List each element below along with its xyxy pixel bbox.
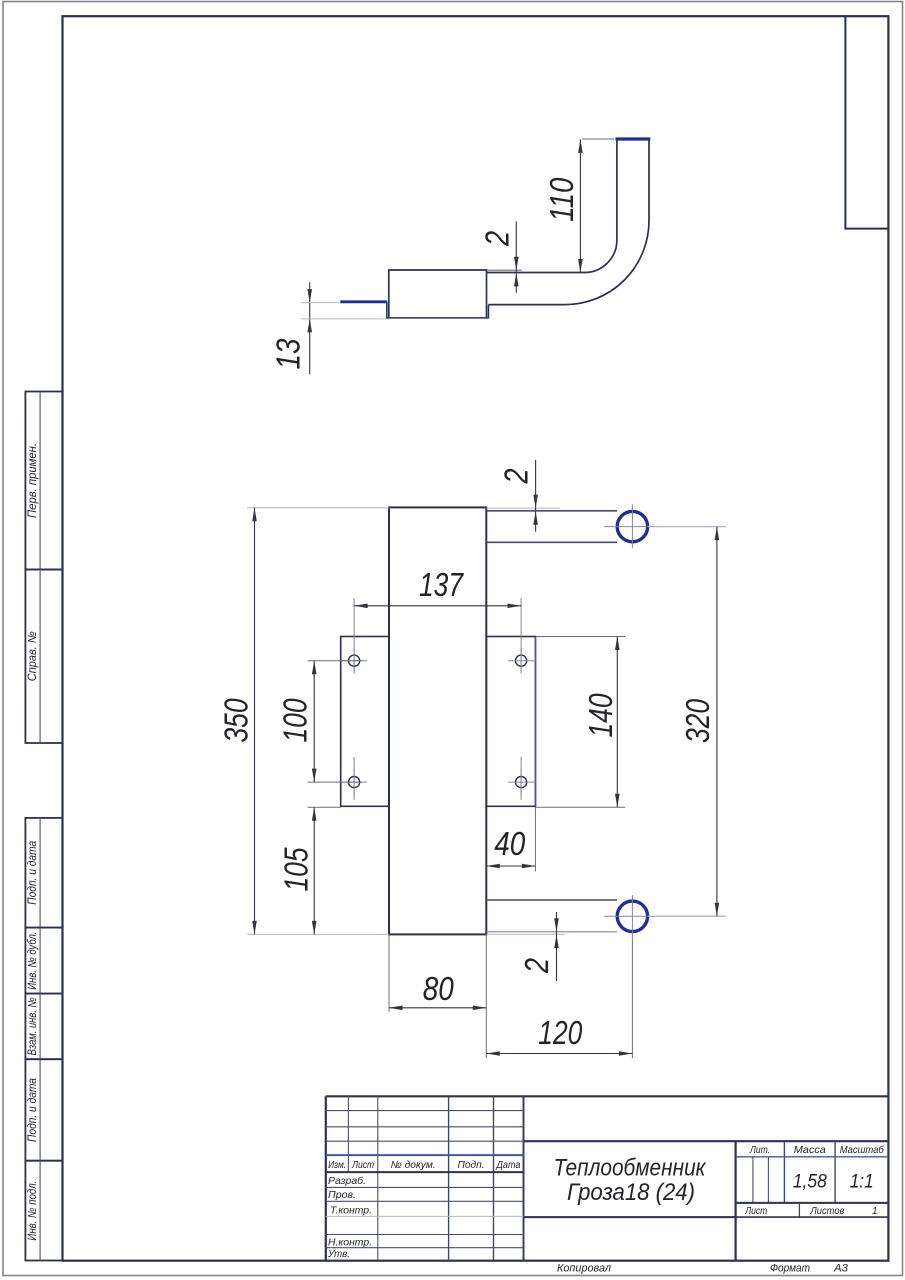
svg-text:№ докум.: № докум. xyxy=(391,1160,436,1171)
left margin box "Инв. № дубл." xyxy=(25,928,62,994)
svg-text:Гроза18 (24): Гроза18 (24) xyxy=(567,1179,695,1206)
left margin box "Взам. инв. №" xyxy=(25,994,62,1060)
side view: bottom step outline xyxy=(387,302,489,318)
svg-text:Копировал: Копировал xyxy=(557,1263,611,1275)
svg-text:Листов: Листов xyxy=(809,1206,844,1217)
side view: pipe bottom line and outer bend arc xyxy=(489,140,650,305)
svg-text:Инв. № дубл.: Инв. № дубл. xyxy=(25,932,39,990)
svg-text:1:1: 1:1 xyxy=(850,1172,874,1193)
svg-text:Н.контр.: Н.контр. xyxy=(328,1238,372,1249)
mounting hole bottom-left xyxy=(341,769,367,795)
svg-text:Инв. № подл.: Инв. № подл. xyxy=(25,1181,39,1241)
side view: inlet stub (thick blue) xyxy=(340,300,387,303)
dimension 40 xyxy=(486,825,535,868)
svg-text:Справ. №: Справ. № xyxy=(25,631,39,681)
svg-text:Формат: Формат xyxy=(770,1263,810,1275)
mounting hole top-left xyxy=(341,648,367,674)
svg-text:2: 2 xyxy=(478,231,515,247)
dimension 350 xyxy=(218,508,257,935)
dimension 320 xyxy=(679,527,719,917)
svg-text:120: 120 xyxy=(538,1014,583,1051)
svg-text:1: 1 xyxy=(872,1206,878,1217)
left margin box "Инв. № подл." xyxy=(25,1161,62,1261)
svg-text:Пров.: Пров. xyxy=(328,1190,356,1201)
main view: bottom pipe end circle xyxy=(617,901,647,931)
main view: right mounting plate xyxy=(486,637,535,807)
side view: block top extension line xyxy=(487,269,522,271)
top-right corner column box xyxy=(845,16,888,228)
svg-text:Лист: Лист xyxy=(744,1206,767,1217)
svg-text:Перв. примен.: Перв. примен. xyxy=(25,443,39,518)
svg-text:40: 40 xyxy=(494,825,526,862)
svg-text:140: 140 xyxy=(582,693,619,738)
extension line body top right xyxy=(486,507,560,509)
svg-text:А3: А3 xyxy=(833,1263,848,1275)
svg-text:Изм.: Изм. xyxy=(328,1160,346,1171)
svg-text:110: 110 xyxy=(543,177,580,222)
designation box top area xyxy=(524,1140,889,1142)
dimension 105 xyxy=(278,807,317,934)
extension lines 137 dim (hole centerlines up) xyxy=(353,598,355,672)
left margin box "Справ. №" xyxy=(25,570,62,744)
side view: pipe top line and inner bend arc xyxy=(487,140,617,273)
dimension 137 xyxy=(354,566,521,608)
dimension 110 (riser height) xyxy=(543,139,614,273)
svg-text:Лист: Лист xyxy=(351,1160,374,1171)
extension line 120 dim (circle centerline) xyxy=(631,940,633,1058)
extension line body bottom left xyxy=(247,933,389,935)
svg-text:1,58: 1,58 xyxy=(793,1172,827,1193)
svg-text:80: 80 xyxy=(423,970,455,1007)
main view: left mounting plate xyxy=(341,637,389,807)
svg-text:105: 105 xyxy=(278,847,315,892)
left margin box "Подп. и дата" xyxy=(25,818,62,928)
title block outer outline xyxy=(326,1095,889,1097)
svg-text:Масса: Масса xyxy=(794,1145,826,1156)
dimension 2 (side view wall gap) xyxy=(478,222,518,293)
svg-text:2: 2 xyxy=(497,469,534,485)
svg-text:Подп.: Подп. xyxy=(458,1160,485,1171)
left margin box "Перв. примен." xyxy=(25,392,62,570)
title block left table column lines xyxy=(347,1096,349,1172)
svg-text:2: 2 xyxy=(518,958,555,974)
svg-text:100: 100 xyxy=(277,698,314,743)
extension lines 40 dim xyxy=(534,807,536,871)
lit/massa/masshtab cells xyxy=(783,1141,785,1203)
svg-text:Подп. и дата: Подп. и дата xyxy=(25,1078,39,1142)
extension lines 140 dim xyxy=(536,636,625,638)
main view: top pipe end circle xyxy=(617,511,647,541)
svg-text:Взам. инв. №: Взам. инв. № xyxy=(25,997,39,1055)
dimension 2 top pipe xyxy=(497,460,538,532)
title block left table row lines xyxy=(326,1110,524,1112)
extension line body top left xyxy=(247,507,389,509)
svg-text:Теплообменник: Теплообменник xyxy=(554,1155,707,1182)
dimension 100 xyxy=(277,661,317,782)
extension line body bottom right xyxy=(486,933,565,935)
svg-text:Масштаб: Масштаб xyxy=(840,1144,885,1156)
top circle crosshair xyxy=(604,526,726,528)
extension lines 80 dim xyxy=(388,934,390,1012)
dimension 2 bottom pipe xyxy=(518,912,559,981)
svg-text:Подп. и дата: Подп. и дата xyxy=(25,840,39,904)
svg-text:Разраб.: Разраб. xyxy=(328,1175,366,1187)
title box bottom xyxy=(524,1216,736,1218)
main view: right plate blue edge xyxy=(534,637,536,806)
side view: pipe end cap (thick blue) xyxy=(616,137,651,140)
main view: bottom outlet pipe xyxy=(486,899,617,901)
extension lines hole rows left xyxy=(308,660,362,662)
svg-text:350: 350 xyxy=(218,698,255,743)
main view: body rectangle xyxy=(389,507,486,934)
svg-text:13: 13 xyxy=(270,338,307,370)
dimension 13 (stub offset) xyxy=(270,282,387,374)
title box right edge xyxy=(734,1141,736,1260)
svg-text:Лит.: Лит. xyxy=(749,1145,770,1156)
main view: top outlet pipe xyxy=(486,510,617,512)
mounting hole bottom-right xyxy=(508,769,534,795)
extension line plate bottom left xyxy=(308,806,341,808)
svg-text:Т.контр.: Т.контр. xyxy=(330,1205,372,1216)
bottom circle crosshair xyxy=(604,915,726,917)
svg-text:Дата: Дата xyxy=(496,1160,521,1171)
dimension 80 xyxy=(389,970,486,1010)
list/listov row xyxy=(798,1203,800,1217)
dimension 140 xyxy=(582,637,620,808)
side view: heat exchanger body block xyxy=(389,270,487,318)
svg-text:137: 137 xyxy=(419,566,464,603)
extension lines 320 dim xyxy=(648,526,726,528)
mounting hole top-right xyxy=(508,648,534,674)
svg-text:Утв.: Утв. xyxy=(327,1249,350,1260)
svg-text:320: 320 xyxy=(679,698,716,743)
left margin box "Подп. и дата" xyxy=(25,1059,62,1161)
dimension 120 xyxy=(486,1014,632,1056)
